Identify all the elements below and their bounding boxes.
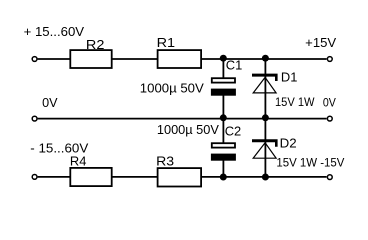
svg-text:15V 1W -15V: 15V 1W -15V (276, 156, 345, 170)
svg-text:D2: D2 (280, 135, 297, 150)
svg-text:0V: 0V (42, 95, 58, 110)
svg-text:D1: D1 (281, 69, 298, 84)
svg-text:R2: R2 (86, 37, 105, 52)
svg-text:15V 1W: 15V 1W (275, 95, 315, 109)
svg-text:C1: C1 (226, 58, 242, 73)
svg-text:0V: 0V (323, 95, 337, 109)
svg-text:+15V: +15V (305, 35, 336, 50)
svg-text:1000µ 50V: 1000µ 50V (157, 122, 219, 137)
svg-text:1000µ 50V: 1000µ 50V (140, 81, 204, 96)
svg-text:+ 15...60V: + 15...60V (24, 24, 85, 39)
svg-text:C2: C2 (225, 123, 241, 138)
svg-text:R3: R3 (156, 153, 174, 168)
svg-text:R1: R1 (157, 35, 176, 50)
svg-text:R4: R4 (70, 154, 87, 169)
